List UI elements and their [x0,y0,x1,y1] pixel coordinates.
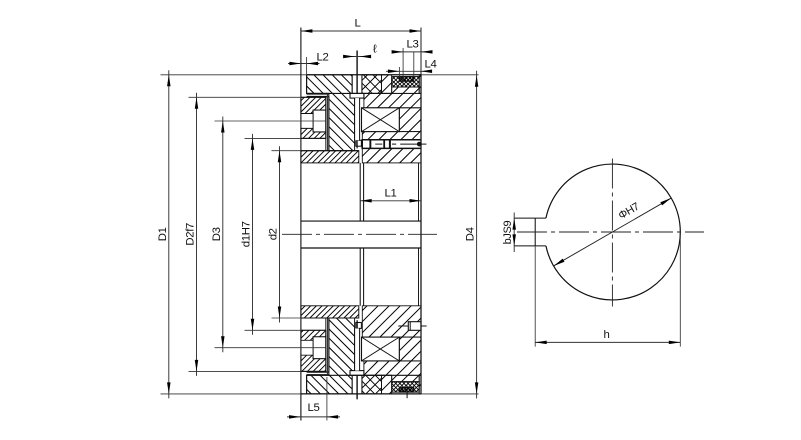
dimension L2 [288,52,328,66]
right disc body (section hatch both halves) [325,75,456,394]
svg-text:L3: L3 [407,39,419,51]
L3 extension [403,48,414,87]
dimension d2 [268,146,282,322]
dimension b JS9 [502,213,516,253]
pin extension lower [356,375,358,399]
keyway bottom face [534,218,536,347]
extension d2 lower [272,317,359,319]
flange front face upper [306,75,308,94]
extension d1H7 lower [245,329,326,331]
extension D3 lower [215,347,326,349]
svg-text:L1: L1 [385,188,397,200]
dimension D1 [157,70,171,398]
cover plate band B lower [288,330,338,340]
seal gland lower (cross hatch) [378,382,434,392]
bore upper line [301,220,421,222]
seal centre tick lower [406,386,408,399]
cover plate band B upper [286,128,341,138]
svg-text:L: L [355,18,361,30]
step shoulder lines lower [307,372,329,375]
dimension D3 [211,117,225,353]
top edge with D1/D4 extensions [161,74,479,76]
bolt head recess upper [313,110,326,132]
svg-text:D3: D3 [211,227,223,241]
dimension h [535,329,680,344]
left view centreline [282,233,437,235]
dimension L4 [386,59,436,74]
step shoulder lines upper [307,94,329,97]
dimension L3 [392,39,433,54]
row line upper [307,92,392,94]
dimension D4 [465,71,479,399]
extension d2 upper [272,150,359,152]
spring block upper [362,108,400,132]
L2 extension [306,57,308,75]
dimension L5 [287,402,340,419]
bolt head recess lower [313,337,326,359]
pin extension upper [356,51,358,94]
extension D2f7 upper [189,96,326,98]
circle horizontal centreline [517,231,704,233]
svg-text:D2f7: D2f7 [185,223,197,246]
extension D3 upper [215,120,326,122]
extension D2f7 lower [189,370,326,372]
pin head upper [350,93,364,98]
pin foot lower [356,320,362,328]
circle vertical centreline [611,159,613,307]
shaft bore circle [546,164,680,300]
keyway bottom edge [514,245,546,247]
row line lower [307,374,392,376]
extension d1H7 upper [245,137,326,139]
svg-text:D1: D1 [157,227,169,241]
pin stem lower [355,320,360,370]
seal gland upper (cross hatch) [380,77,432,87]
pin slot lower [352,375,362,394]
left friction band lower [287,306,373,318]
dimension d1H7 [241,134,255,335]
L5 extension [326,377,328,421]
bottom edge with extensions [161,393,479,395]
block left edge lower [328,318,330,372]
keyway top edge [514,217,546,219]
plate right edge lower [326,318,328,375]
svg-text:bJS9: bJS9 [502,220,514,244]
svg-text:d2: d2 [268,228,280,240]
cover plate band A upper [282,97,343,113]
seal inner ring lower [392,387,422,392]
hub gap right line [363,163,365,306]
dimension Phi H7 line [554,198,672,266]
L4 extension [398,67,400,77]
cover plate band A lower [279,355,346,371]
dimension pin dia [343,44,377,59]
housing lower half (back hatch) [226,318,431,394]
left face [300,28,302,421]
svg-text:h: h [604,329,610,341]
right hub chamfer line [418,163,420,306]
adjusting screw row upper [356,140,427,149]
svg-text:L5: L5 [308,402,320,414]
hub gap left line [359,163,361,306]
flange front face lower [306,375,308,394]
left friction band upper [284,151,375,163]
housing upper half (back hatch) [222,75,436,151]
pin guide block lower (cross hatch) [337,375,404,394]
svg-text:L2: L2 [317,52,329,64]
plate right edge upper [326,94,328,151]
bore lower line [301,247,421,249]
pin guide block upper (cross hatch) [334,75,406,94]
h extension right [679,236,681,347]
dimension L1 [360,188,421,203]
svg-text:d1H7: d1H7 [241,221,253,247]
svg-text:L4: L4 [425,59,437,71]
adjusting screw side view lower [398,322,426,331]
seal inner ring upper [392,77,421,82]
dimension D2f7 [185,93,199,376]
pin stem upper [355,98,360,148]
spring block lower [362,337,400,361]
svg-text:D4: D4 [465,227,477,241]
pin head lower [350,371,364,376]
block left edge upper [328,97,330,151]
right face [420,28,422,394]
pin slot upper [352,75,362,94]
dimension L [301,18,421,33]
